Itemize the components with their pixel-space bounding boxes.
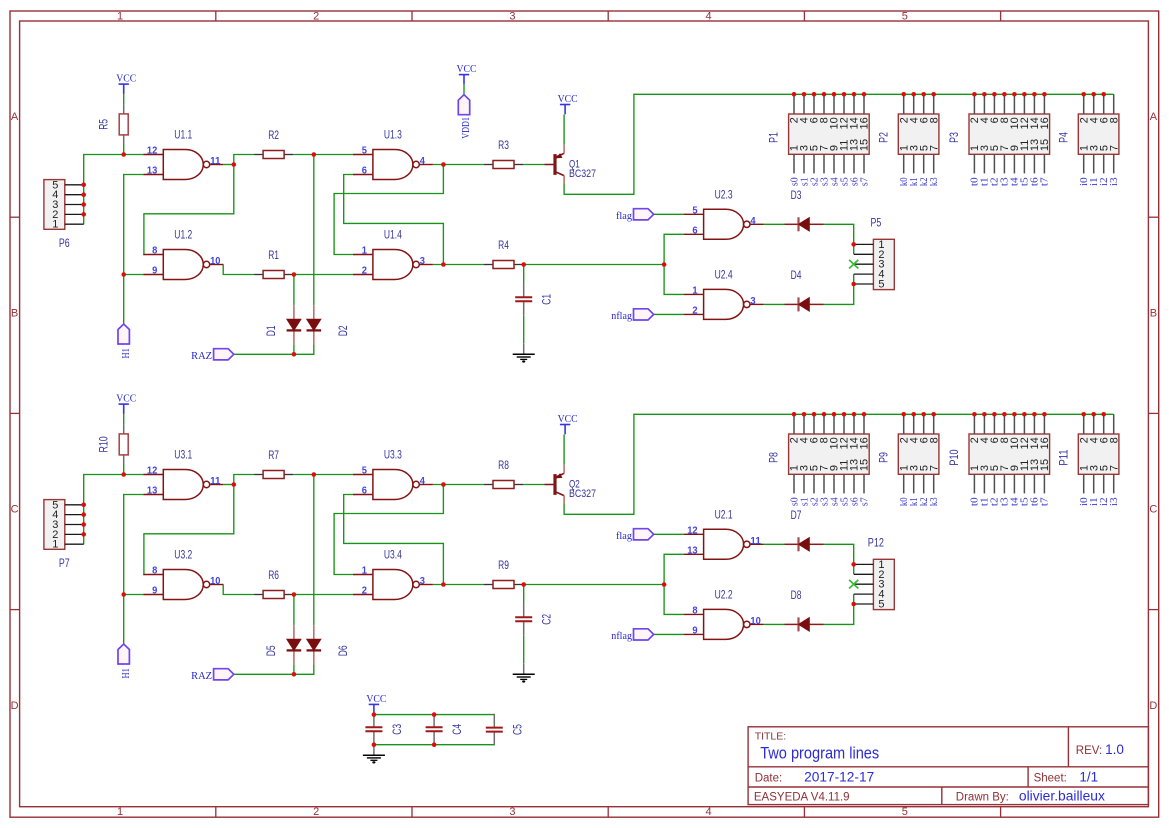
svg-text:C3: C3 [392, 724, 404, 735]
svg-text:2: 2 [313, 10, 319, 22]
svg-text:2: 2 [362, 266, 368, 277]
svg-text:5: 5 [362, 146, 368, 157]
svg-text:8: 8 [928, 437, 940, 443]
svg-text:6: 6 [362, 486, 368, 497]
svg-text:s7: s7 [858, 497, 870, 506]
svg-text:C4: C4 [452, 723, 464, 734]
svg-text:12: 12 [687, 526, 698, 537]
svg-text:8: 8 [692, 606, 698, 617]
svg-text:1: 1 [117, 806, 123, 818]
svg-text:R3: R3 [498, 140, 509, 152]
svg-text:1: 1 [117, 10, 123, 22]
svg-text:B: B [1150, 307, 1157, 319]
svg-text:Two program lines: Two program lines [760, 744, 879, 763]
svg-text:VDD1: VDD1 [460, 117, 472, 139]
svg-text:VCC: VCC [116, 73, 136, 85]
svg-text:15: 15 [859, 459, 871, 471]
svg-text:U2.2: U2.2 [715, 589, 733, 601]
svg-text:15: 15 [1039, 459, 1051, 471]
svg-text:P1: P1 [769, 132, 781, 143]
svg-text:10: 10 [210, 576, 221, 587]
svg-text:D1: D1 [266, 325, 278, 336]
svg-text:13: 13 [147, 486, 158, 497]
svg-text:C: C [11, 504, 19, 516]
svg-text:6: 6 [362, 166, 368, 177]
svg-text:3: 3 [420, 256, 426, 267]
svg-text:D7: D7 [791, 510, 802, 522]
svg-text:12: 12 [147, 466, 158, 477]
svg-text:flag: flag [616, 210, 632, 222]
svg-text:s7: s7 [858, 177, 870, 186]
svg-text:RAZ: RAZ [191, 350, 212, 362]
svg-text:16: 16 [859, 117, 871, 129]
svg-text:VCC: VCC [366, 693, 386, 705]
svg-text:P8: P8 [769, 452, 781, 463]
svg-text:13: 13 [147, 166, 158, 177]
svg-text:1/1: 1/1 [1079, 769, 1098, 784]
svg-text:5: 5 [902, 10, 908, 22]
svg-text:9: 9 [152, 586, 158, 597]
svg-text:7: 7 [928, 465, 940, 471]
svg-text:R8: R8 [498, 460, 509, 472]
svg-text:R4: R4 [498, 240, 509, 252]
svg-text:15: 15 [859, 139, 871, 151]
svg-text:REV:: REV: [1076, 745, 1102, 757]
svg-text:3: 3 [509, 806, 515, 818]
svg-text:R2: R2 [268, 130, 279, 142]
svg-text:10: 10 [750, 616, 761, 627]
svg-text:11: 11 [210, 156, 221, 167]
svg-text:1.0: 1.0 [1105, 742, 1124, 757]
svg-text:i3: i3 [1108, 177, 1120, 186]
svg-text:D3: D3 [791, 190, 802, 202]
svg-text:2017-12-17: 2017-12-17 [804, 769, 874, 784]
svg-text:P4: P4 [1058, 132, 1070, 143]
svg-text:8: 8 [1108, 117, 1120, 123]
svg-text:4: 4 [706, 806, 712, 818]
svg-text:R7: R7 [268, 450, 279, 462]
svg-text:P11: P11 [1058, 449, 1070, 465]
svg-text:R6: R6 [268, 570, 279, 582]
svg-text:B: B [11, 307, 18, 319]
svg-text:k3: k3 [928, 497, 940, 506]
svg-text:7: 7 [928, 145, 940, 151]
svg-text:A: A [1150, 111, 1158, 123]
svg-text:U3.2: U3.2 [174, 550, 192, 562]
svg-text:U1.4: U1.4 [384, 230, 402, 242]
svg-text:9: 9 [152, 266, 158, 277]
svg-text:U3.4: U3.4 [384, 550, 402, 562]
svg-text:U2.4: U2.4 [715, 269, 733, 281]
svg-text:8: 8 [928, 117, 940, 123]
svg-text:1: 1 [52, 539, 58, 551]
svg-text:nflag: nflag [611, 630, 632, 642]
svg-text:i3: i3 [1108, 497, 1120, 506]
svg-text:P5: P5 [871, 217, 882, 229]
svg-text:VCC: VCC [457, 63, 477, 75]
svg-text:1: 1 [52, 219, 58, 231]
svg-text:D5: D5 [266, 645, 278, 656]
svg-text:D: D [1149, 700, 1157, 712]
svg-text:15: 15 [1039, 139, 1051, 151]
svg-text:olivier.bailleux: olivier.bailleux [1019, 789, 1105, 804]
svg-text:5: 5 [878, 599, 884, 611]
svg-text:2: 2 [313, 806, 319, 818]
svg-text:4: 4 [420, 156, 426, 167]
svg-text:EASYEDA V4.11.9: EASYEDA V4.11.9 [754, 791, 850, 803]
svg-text:C: C [1149, 504, 1157, 516]
svg-text:U3.1: U3.1 [174, 450, 192, 462]
svg-text:P7: P7 [59, 558, 70, 570]
svg-text:16: 16 [859, 437, 871, 449]
svg-text:U2.1: U2.1 [715, 509, 733, 521]
svg-text:P6: P6 [59, 238, 70, 250]
svg-text:U1.1: U1.1 [174, 130, 192, 142]
svg-text:VCC: VCC [558, 413, 578, 425]
svg-text:6: 6 [692, 226, 698, 237]
svg-text:8: 8 [1108, 437, 1120, 443]
svg-text:8: 8 [152, 246, 158, 257]
svg-text:R1: R1 [268, 250, 279, 262]
svg-text:D4: D4 [791, 270, 802, 282]
svg-text:5: 5 [878, 279, 884, 291]
svg-text:U1.3: U1.3 [384, 130, 402, 142]
svg-text:12: 12 [147, 146, 158, 157]
svg-text:Date:: Date: [755, 772, 783, 784]
svg-text:11: 11 [750, 536, 761, 547]
svg-text:C1: C1 [542, 294, 554, 305]
svg-text:C2: C2 [542, 614, 554, 625]
svg-text:4: 4 [420, 476, 426, 487]
svg-text:1: 1 [692, 286, 698, 297]
svg-text:R5: R5 [99, 119, 111, 130]
svg-text:t7: t7 [1039, 497, 1051, 506]
svg-text:P2: P2 [878, 132, 890, 143]
svg-text:P12: P12 [868, 537, 884, 549]
svg-text:9: 9 [692, 626, 698, 637]
svg-text:flag: flag [616, 530, 632, 542]
svg-text:D2: D2 [338, 325, 350, 336]
svg-text:2: 2 [692, 306, 698, 317]
svg-text:t7: t7 [1039, 177, 1051, 186]
svg-text:RAZ: RAZ [191, 670, 212, 682]
svg-text:16: 16 [1039, 437, 1051, 449]
svg-text:7: 7 [1108, 465, 1120, 471]
svg-text:A: A [11, 111, 19, 123]
svg-text:7: 7 [1108, 145, 1120, 151]
svg-text:1: 1 [362, 566, 368, 577]
svg-text:U1.2: U1.2 [174, 230, 192, 242]
svg-text:16: 16 [1039, 117, 1051, 129]
svg-text:Drawn By:: Drawn By: [956, 791, 1009, 803]
svg-text:D: D [11, 700, 19, 712]
svg-text:4: 4 [706, 10, 712, 22]
svg-text:3: 3 [420, 576, 426, 587]
svg-text:VCC: VCC [558, 93, 578, 105]
svg-text:5: 5 [692, 206, 698, 217]
svg-text:3: 3 [750, 296, 756, 307]
svg-text:3: 3 [509, 10, 515, 22]
svg-text:2: 2 [362, 586, 368, 597]
svg-text:R10: R10 [99, 436, 111, 452]
svg-text:D6: D6 [338, 645, 350, 656]
svg-text:BC327: BC327 [569, 168, 596, 180]
svg-text:4: 4 [750, 216, 756, 227]
svg-text:U2.3: U2.3 [715, 189, 733, 201]
svg-text:8: 8 [152, 566, 158, 577]
svg-text:10: 10 [210, 256, 221, 267]
svg-text:k3: k3 [928, 177, 940, 186]
svg-text:C5: C5 [512, 724, 524, 735]
svg-text:Sheet:: Sheet: [1034, 772, 1067, 784]
svg-text:11: 11 [210, 476, 221, 487]
svg-text:TITLE:: TITLE: [755, 731, 787, 743]
svg-text:5: 5 [902, 806, 908, 818]
svg-text:VCC: VCC [116, 393, 136, 405]
svg-text:H1: H1 [120, 668, 132, 678]
svg-text:13: 13 [687, 546, 698, 557]
svg-text:U3.3: U3.3 [384, 450, 402, 462]
svg-text:1: 1 [362, 246, 368, 257]
svg-text:P10: P10 [949, 449, 961, 465]
svg-text:R9: R9 [498, 560, 509, 572]
svg-text:P9: P9 [878, 452, 890, 463]
svg-text:BC327: BC327 [569, 488, 596, 500]
svg-text:H1: H1 [120, 348, 132, 358]
svg-text:P3: P3 [949, 132, 961, 143]
svg-text:D8: D8 [791, 590, 802, 602]
svg-text:nflag: nflag [611, 310, 632, 322]
svg-text:5: 5 [362, 466, 368, 477]
